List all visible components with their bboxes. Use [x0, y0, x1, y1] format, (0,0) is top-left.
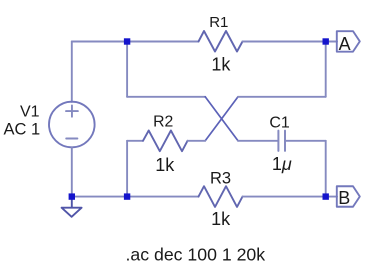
svg-text:R2: R2 — [153, 113, 173, 130]
spice directive .ac dec 100 1 20k — [125, 244, 265, 264]
value 1k of R1 — [211, 54, 231, 74]
label V1 — [20, 104, 40, 121]
junction bottom rail R2 — [124, 193, 130, 199]
resistor R1 — [199, 31, 243, 52]
svg-text:B: B — [338, 188, 350, 208]
svg-text:A: A — [339, 34, 351, 54]
wire bottom rail left — [72, 196, 199, 198]
wire R2 drop to bottom rail — [126, 141, 128, 197]
value 1u of C1 — [272, 154, 292, 174]
V1 plus sign — [66, 105, 78, 116]
svg-text:1k: 1k — [155, 155, 175, 175]
label R3 — [210, 169, 231, 187]
svg-text:1μ: 1μ — [272, 154, 292, 174]
wire top rail right — [243, 41, 338, 43]
node label A letter — [339, 34, 351, 54]
capacitor C1 plates — [278, 131, 285, 151]
label R1 — [209, 14, 228, 31]
wire R2 left corner — [127, 140, 143, 142]
svg-text:C1: C1 — [269, 114, 290, 131]
label R2 — [153, 113, 173, 130]
flag B outline — [337, 186, 360, 207]
wire V1 top lead — [71, 42, 73, 102]
svg-text:R1: R1 — [209, 14, 228, 31]
value AC 1 — [3, 120, 40, 138]
wire upper right horizontal to node A — [238, 96, 326, 98]
wire crossing diagonal node1-to-C1 — [205, 97, 238, 141]
wire C1 left lead — [238, 140, 277, 142]
junction node B — [323, 193, 329, 199]
svg-text:V1: V1 — [20, 104, 40, 121]
flag A outline — [337, 31, 360, 52]
value 1k of R3 — [211, 209, 231, 229]
resistor R2 — [143, 131, 188, 152]
ground — [62, 197, 82, 217]
wire V1 bottom lead — [71, 147, 73, 196]
wire bottom rail right — [243, 196, 338, 198]
wire node B riser — [325, 141, 327, 197]
resistor R3 — [199, 186, 243, 207]
wire node A drop — [325, 42, 327, 97]
junction ground — [69, 193, 75, 199]
node label B letter — [338, 188, 350, 208]
V1 minus sign — [66, 138, 77, 140]
svg-text:1k: 1k — [211, 209, 231, 229]
wire crossing diagonal R2-to-A — [205, 97, 238, 141]
svg-text:AC 1: AC 1 — [3, 120, 40, 138]
value 1k of R2 — [155, 155, 175, 175]
svg-text:1k: 1k — [211, 54, 231, 74]
svg-text:.ac dec 100 1 20k: .ac dec 100 1 20k — [125, 244, 265, 264]
wire R2 right lead — [188, 140, 206, 142]
junction node A — [323, 38, 329, 44]
wire C1 right lead — [286, 140, 326, 142]
wire node1 drop — [126, 42, 128, 97]
wire node1 horizontal — [127, 96, 205, 98]
label C1 — [269, 114, 290, 131]
wire top rail left — [72, 41, 199, 43]
voltage source V1 circle — [49, 102, 95, 148]
svg-text:R3: R3 — [210, 169, 231, 187]
junction node1 top — [124, 38, 130, 44]
